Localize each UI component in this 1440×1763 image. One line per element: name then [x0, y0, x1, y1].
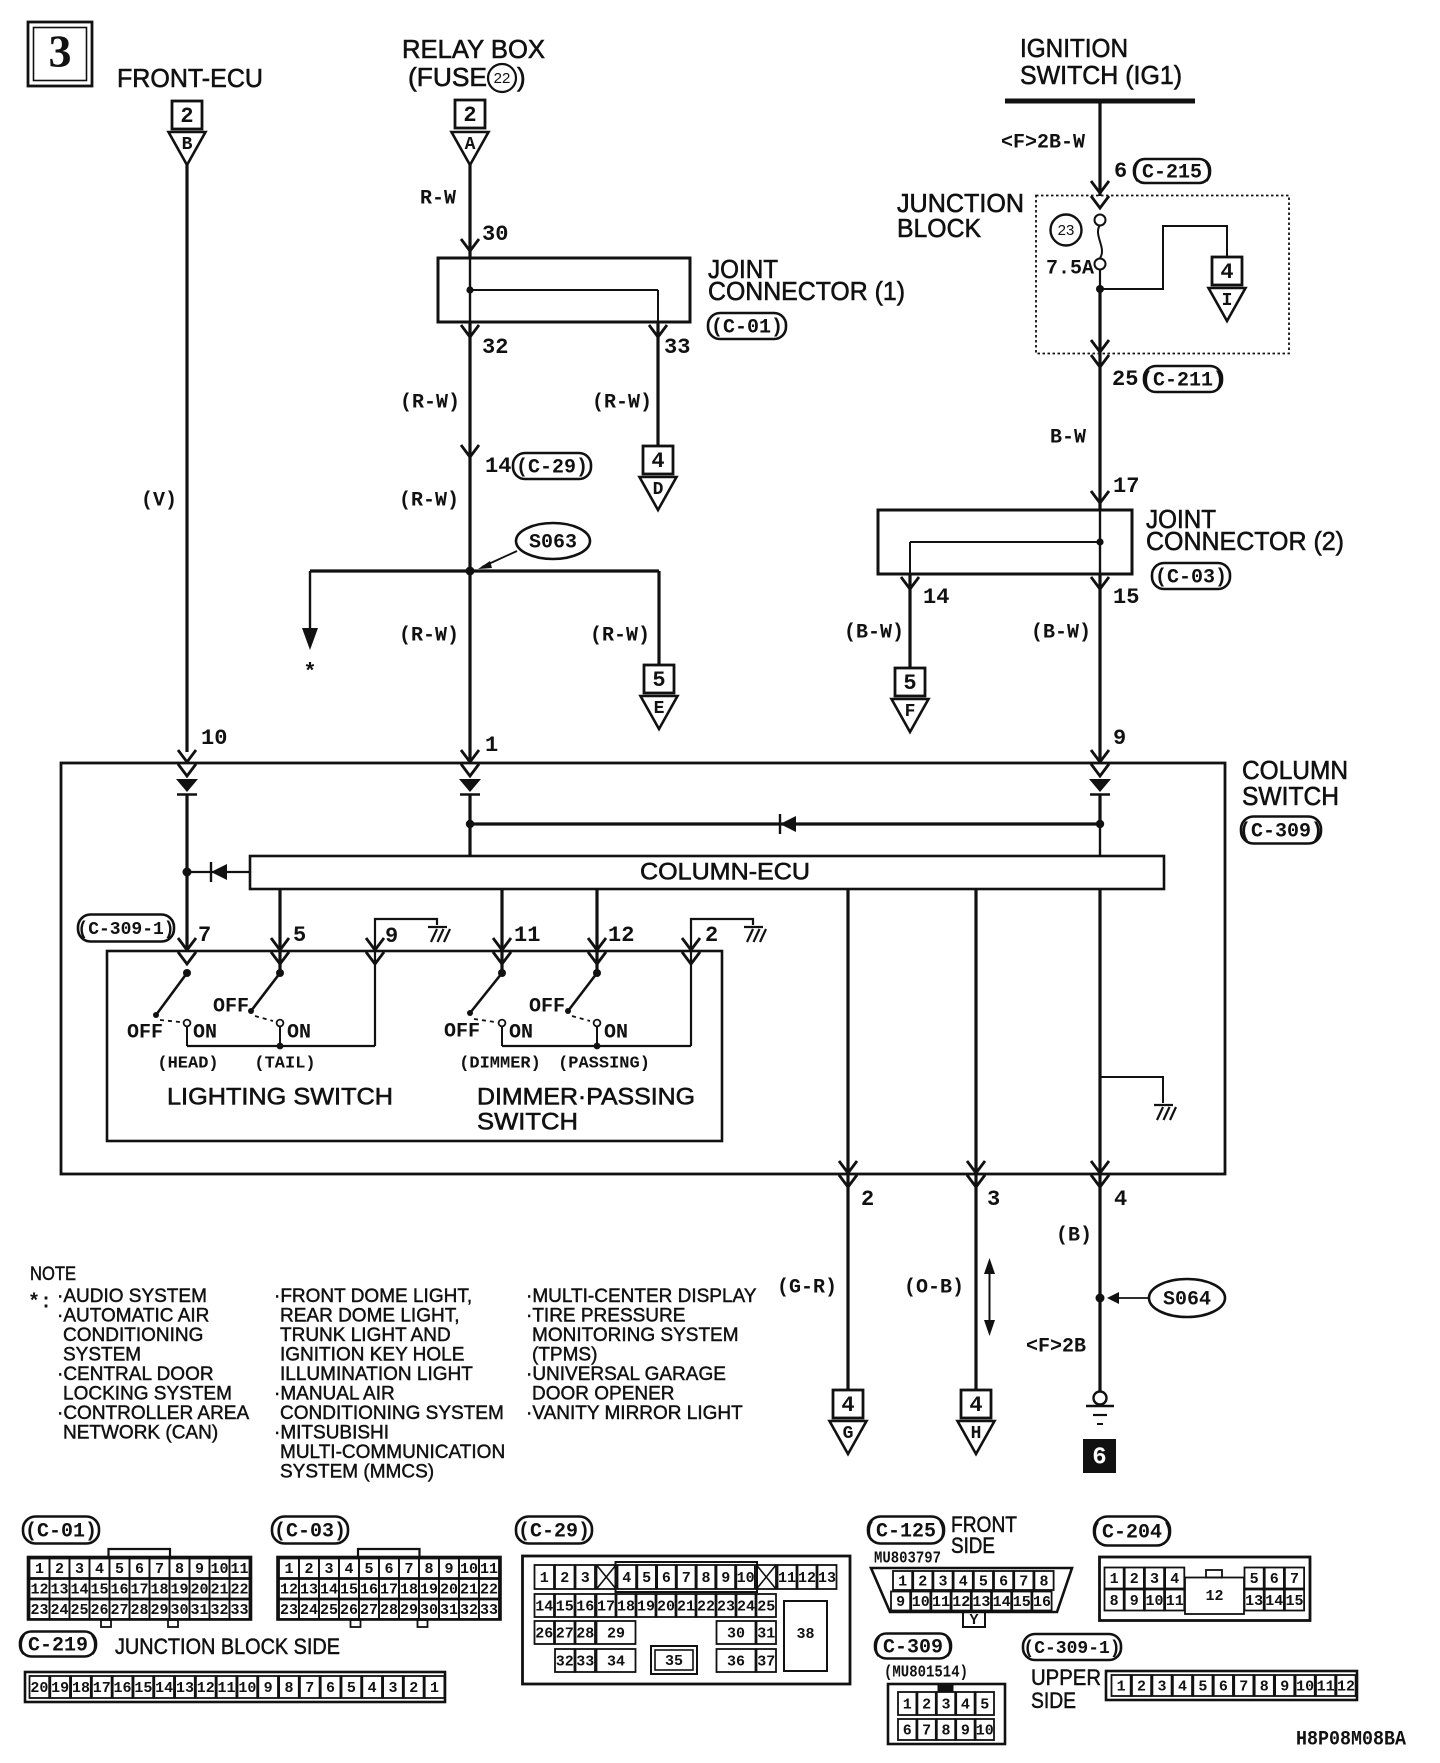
svg-text:2: 2: [1130, 1571, 1139, 1588]
ground symbol pin 2: [744, 927, 766, 942]
wire 2B-W from ignition switch: [1098, 101, 1101, 196]
note column 3: [526, 1286, 757, 1424]
wire label R-W: [420, 187, 456, 210]
svg-text:JUNCTION BLOCK SIDE: JUNCTION BLOCK SIDE: [115, 1634, 340, 1659]
svg-text:16: 16: [360, 1582, 378, 1599]
svg-text:I: I: [1222, 291, 1233, 311]
HEAD OFF label: [127, 1021, 163, 1044]
svg-text:SWITCH: SWITCH: [477, 1108, 578, 1135]
svg-text:6: 6: [1114, 159, 1127, 184]
bidirectional arrow: [984, 1258, 995, 1336]
svg-text:4: 4: [841, 1393, 854, 1418]
svg-text:31: 31: [190, 1602, 208, 1619]
connector label C-211: [1141, 366, 1225, 392]
svg-text:9: 9: [1280, 1678, 1289, 1695]
svg-text:15: 15: [134, 1680, 152, 1697]
svg-text:CONDITIONING SYSTEM: CONDITIONING SYSTEM: [280, 1403, 504, 1424]
svg-text:LIGHTING SWITCH: LIGHTING SWITCH: [167, 1083, 393, 1110]
svg-text:14: 14: [70, 1582, 88, 1599]
junction block box: [1036, 196, 1289, 354]
svg-text:17: 17: [130, 1582, 148, 1599]
svg-text:1: 1: [903, 1696, 912, 1713]
svg-text:4: 4: [95, 1561, 104, 1578]
pin 6 connector crossing: [1091, 181, 1109, 193]
svg-text:(C-309): (C-309): [871, 1636, 955, 1659]
svg-text:2: 2: [705, 923, 718, 948]
pin 2 ground bracket: [691, 919, 753, 951]
DIMMER PASSING SWITCH title: [477, 1083, 695, 1135]
pin 30 label: [482, 222, 508, 247]
svg-text:5: 5: [979, 1573, 988, 1590]
svg-text:2: 2: [180, 104, 193, 129]
wire label (R-W) below C-29: [399, 489, 459, 512]
svg-text:12: 12: [1337, 1678, 1355, 1695]
connector C-03 pin grid: [278, 1549, 501, 1627]
output pin 3 label: [987, 1187, 1000, 1212]
column switch outer box: [61, 763, 1225, 1174]
svg-text:·MITSUBISHI: ·MITSUBISHI: [274, 1423, 389, 1444]
svg-text:14: 14: [993, 1594, 1011, 1611]
svg-text:20: 20: [657, 1598, 675, 1615]
svg-text:2: 2: [922, 1696, 931, 1713]
connector label C-29: [513, 453, 591, 479]
pin 17 crossing: [1091, 491, 1109, 503]
svg-text:10: 10: [201, 726, 227, 751]
pin 15 label: [1113, 585, 1139, 610]
destination connector 5 box F: [895, 668, 925, 696]
pin 25 label: [1112, 367, 1138, 392]
svg-text:7: 7: [198, 923, 211, 948]
ignition switch supply bar: [1005, 99, 1195, 104]
svg-text:32: 32: [210, 1602, 228, 1619]
destination connector 4 box H: [961, 1390, 991, 1418]
wire node to column-ecu left: [187, 871, 250, 873]
wire label <F>2B: [1026, 1335, 1086, 1358]
svg-text:6: 6: [999, 1573, 1008, 1590]
svg-text:7: 7: [404, 1561, 413, 1578]
svg-text:25: 25: [70, 1602, 88, 1619]
svg-text:9: 9: [896, 1594, 905, 1611]
svg-text:6: 6: [384, 1561, 393, 1578]
output pin 2 label: [861, 1187, 874, 1212]
svg-text:COLUMN-ECU: COLUMN-ECU: [640, 858, 810, 885]
wire label (B-W) left: [844, 621, 904, 644]
svg-text:8: 8: [284, 1680, 293, 1697]
svg-text:19: 19: [420, 1582, 438, 1599]
svg-text:36: 36: [727, 1653, 745, 1670]
svg-text:11: 11: [480, 1561, 498, 1578]
output 4 exit crossing: [1091, 1161, 1109, 1187]
svg-text:25: 25: [1112, 367, 1138, 392]
svg-text:G: G: [843, 1424, 854, 1444]
JOINT CONNECTOR (2) title: [1146, 504, 1344, 556]
svg-text:Y: Y: [969, 1612, 978, 1629]
svg-text:22: 22: [230, 1582, 248, 1599]
JUNCTION BLOCK title: [897, 188, 1024, 243]
svg-text:22: 22: [494, 70, 511, 87]
HEAD ON label: [193, 1021, 217, 1044]
pin 9 label: [1113, 726, 1126, 751]
C-309 part number MU801514: [884, 1663, 968, 1682]
svg-text:19: 19: [170, 1582, 188, 1599]
wire ecu output 4: [1098, 889, 1101, 1174]
wire (R-W) pin 33 down: [656, 322, 659, 446]
ground reference box 6: [1083, 1439, 1116, 1473]
pin 9 entry crossing: [1091, 750, 1109, 776]
svg-text:2: 2: [463, 103, 476, 128]
svg-text:31: 31: [757, 1625, 775, 1642]
connector label C-01: [708, 313, 786, 339]
svg-text:23: 23: [30, 1602, 48, 1619]
pin 9 ground bracket: [375, 919, 437, 951]
svg-text:13: 13: [50, 1582, 68, 1599]
svg-text:30: 30: [727, 1625, 745, 1642]
DIMMER OFF label: [444, 1020, 480, 1043]
svg-text:MULTI-COMMUNICATION: MULTI-COMMUNICATION: [280, 1442, 505, 1463]
wire label (O-B): [904, 1276, 964, 1299]
svg-text:16: 16: [114, 1680, 132, 1697]
svg-text:F: F: [905, 702, 916, 722]
svg-text:37: 37: [757, 1653, 775, 1670]
svg-text:7.5A: 7.5A: [1046, 257, 1094, 280]
PASSING OFF label: [529, 995, 565, 1018]
svg-text:26: 26: [90, 1602, 108, 1619]
svg-text:REAR DOME LIGHT,: REAR DOME LIGHT,: [280, 1306, 459, 1327]
svg-text:MU803797: MU803797: [874, 1549, 941, 1568]
svg-text:10: 10: [210, 1561, 228, 1578]
wire label (G-R): [777, 1276, 837, 1299]
svg-text:12: 12: [280, 1582, 298, 1599]
svg-text:18: 18: [400, 1582, 418, 1599]
svg-text:*: *: [303, 660, 316, 685]
wire branch to audio systems with arrow: [302, 571, 318, 650]
svg-text:10: 10: [912, 1594, 930, 1611]
svg-text:(DIMMER): (DIMMER): [459, 1054, 541, 1073]
svg-text:24: 24: [50, 1602, 68, 1619]
svg-text:14: 14: [923, 585, 949, 610]
svg-text:·CENTRAL DOOR: ·CENTRAL DOOR: [57, 1364, 214, 1385]
svg-text:(C-211): (C-211): [1141, 369, 1225, 392]
svg-text:3: 3: [941, 1696, 950, 1713]
diagram code H8P08M08BA: [1296, 1728, 1406, 1751]
svg-text:SIDE: SIDE: [1031, 1688, 1076, 1713]
svg-text:·MULTI-CENTER DISPLAY: ·MULTI-CENTER DISPLAY: [526, 1286, 757, 1307]
asterisk key: [28, 1291, 52, 1314]
svg-text:(R-W): (R-W): [590, 624, 650, 647]
connector label C-309-1 pinout: [1023, 1634, 1121, 1660]
svg-text:22: 22: [480, 1582, 498, 1599]
switch box entry crossing pin 9: [366, 938, 384, 964]
svg-text:14: 14: [535, 1598, 553, 1615]
svg-text:10: 10: [1296, 1678, 1314, 1695]
JUNCTION BLOCK SIDE caption: [115, 1634, 340, 1659]
svg-text:5: 5: [347, 1680, 356, 1697]
svg-text:(MU801514): (MU801514): [884, 1663, 968, 1682]
svg-text:2: 2: [918, 1573, 927, 1590]
FRONT SIDE caption: [951, 1512, 1017, 1558]
svg-text:R-W: R-W: [420, 187, 456, 210]
lighting switch TAIL contact: [248, 969, 284, 1046]
wire (R-W) splice to triangle E: [657, 571, 660, 665]
svg-text:<F>2B-W: <F>2B-W: [1001, 131, 1085, 154]
svg-text:15: 15: [90, 1582, 108, 1599]
svg-text:28: 28: [576, 1625, 594, 1642]
svg-text:(C-01): (C-01): [711, 316, 783, 339]
connector C-204 pin grid: [1100, 1557, 1311, 1621]
pin 6 label: [1114, 159, 1127, 184]
wire label (R-W) left: [400, 391, 460, 414]
NOTE heading: [30, 1264, 76, 1285]
connector C-309-1 pin grid: [1106, 1671, 1357, 1700]
svg-text:SYSTEM: SYSTEM: [63, 1345, 141, 1366]
svg-text:5: 5: [364, 1561, 373, 1578]
destination triangle F: [892, 699, 929, 732]
svg-text:9: 9: [1130, 1593, 1139, 1610]
svg-text:10: 10: [976, 1722, 994, 1739]
svg-text:D: D: [653, 480, 664, 500]
svg-text:4: 4: [651, 449, 664, 474]
svg-text:9: 9: [444, 1561, 453, 1578]
IGNITION SWITCH title: [1020, 33, 1182, 90]
TAIL ON label: [287, 1021, 311, 1044]
svg-text:23: 23: [1058, 222, 1075, 239]
svg-text:3: 3: [1157, 1678, 1166, 1695]
wire junction block to pin 25: [1098, 289, 1101, 354]
svg-text:14: 14: [1265, 1593, 1283, 1610]
svg-text:13: 13: [176, 1680, 194, 1697]
svg-text:4: 4: [622, 1570, 631, 1587]
wire label (R-W) splice right: [590, 624, 650, 647]
svg-text:7: 7: [155, 1561, 164, 1578]
wire pin9 to bus: [1098, 795, 1101, 856]
branch wire to connector 4 I: [1100, 226, 1227, 289]
pin 9 label switch: [385, 924, 398, 949]
circled fuse number 23: [1051, 215, 1082, 246]
svg-text:IGNITION KEY HOLE: IGNITION KEY HOLE: [280, 1345, 464, 1366]
pin 15 crossing: [1091, 577, 1109, 589]
(TAIL) label: [254, 1054, 315, 1073]
svg-text:8: 8: [1260, 1678, 1269, 1695]
connector label C-204 pinout: [1090, 1517, 1174, 1546]
splice S064 node: [1096, 1294, 1105, 1303]
svg-text:(TPMS): (TPMS): [532, 1345, 597, 1366]
pin 1 entry arrow: [459, 779, 481, 795]
svg-text:(G-R): (G-R): [777, 1276, 837, 1299]
svg-text:33: 33: [480, 1602, 498, 1619]
svg-text:SWITCH (IG1): SWITCH (IG1): [1020, 60, 1182, 90]
pin 1 label: [485, 733, 498, 758]
wire label <F>2B-W: [1001, 131, 1085, 154]
svg-text:1: 1: [35, 1561, 44, 1578]
svg-text:6: 6: [1270, 1571, 1279, 1588]
svg-text:32: 32: [460, 1602, 478, 1619]
svg-text:5: 5: [1250, 1571, 1259, 1588]
COLUMN-ECU box: [250, 856, 1164, 889]
svg-text:·MANUAL AIR: ·MANUAL AIR: [274, 1384, 395, 1405]
svg-text:(TAIL): (TAIL): [254, 1054, 315, 1073]
svg-text:<F>2B: <F>2B: [1026, 1335, 1086, 1358]
output 2 exit crossing: [839, 1161, 857, 1187]
svg-text:(C-29): (C-29): [518, 1520, 590, 1543]
svg-text:·VANITY MIRROR LIGHT: ·VANITY MIRROR LIGHT: [526, 1403, 743, 1424]
svg-text:12: 12: [1205, 1588, 1223, 1605]
svg-text:1: 1: [430, 1680, 439, 1697]
ground symbol column switch: [1154, 1105, 1176, 1120]
svg-text:(B): (B): [1056, 1224, 1092, 1247]
connector label C-03 pinout: [272, 1517, 348, 1544]
svg-text:13: 13: [818, 1570, 836, 1587]
svg-text:BLOCK: BLOCK: [897, 213, 982, 243]
connector label C-03: [1152, 563, 1230, 589]
pin 11 label: [514, 923, 540, 948]
connector C-01 pin grid: [28, 1549, 251, 1627]
svg-text:23: 23: [280, 1602, 298, 1619]
svg-text:DIMMER·PASSING: DIMMER·PASSING: [477, 1083, 695, 1110]
svg-text:11: 11: [1166, 1593, 1184, 1610]
svg-text:33: 33: [230, 1602, 248, 1619]
svg-text:11: 11: [230, 1561, 248, 1578]
wire pin1 to column-ecu: [468, 795, 471, 856]
svg-text:7: 7: [305, 1680, 314, 1697]
svg-text:(C-309-1): (C-309-1): [77, 920, 174, 940]
svg-text:7: 7: [682, 1570, 691, 1587]
svg-text:9: 9: [961, 1722, 970, 1739]
svg-text:2: 2: [304, 1561, 313, 1578]
svg-text:20: 20: [30, 1680, 48, 1697]
LIGHTING SWITCH title: [167, 1083, 393, 1110]
joint connector 2 box: [878, 510, 1132, 574]
pin 1 entry crossing: [461, 750, 479, 776]
wire B-W down to joint connector 2: [1098, 354, 1101, 511]
connector label C-215: [1130, 159, 1214, 184]
svg-text:SWITCH: SWITCH: [1242, 781, 1339, 811]
svg-text:8: 8: [701, 1570, 710, 1587]
wire ecu pin 11: [500, 889, 503, 973]
svg-text:12: 12: [30, 1582, 48, 1599]
destination triangle E: [641, 696, 678, 729]
svg-text:4: 4: [1114, 1187, 1127, 1212]
svg-text:5: 5: [980, 1696, 989, 1713]
svg-text:10: 10: [1145, 1593, 1163, 1610]
pin 14 label jc2: [923, 585, 949, 610]
svg-text:5: 5: [903, 671, 916, 696]
pin 33 label: [664, 335, 690, 360]
svg-text:10: 10: [737, 1570, 755, 1587]
pin 9 entry arrow: [1089, 779, 1111, 795]
svg-text:19: 19: [637, 1598, 655, 1615]
COLUMN SWITCH title: [1242, 755, 1348, 811]
svg-text:29: 29: [150, 1602, 168, 1619]
connector C-125 pin grid: [871, 1568, 1072, 1629]
svg-text:MONITORING SYSTEM: MONITORING SYSTEM: [532, 1325, 739, 1346]
svg-text:29: 29: [607, 1625, 625, 1642]
svg-text:17: 17: [1113, 474, 1139, 499]
svg-text:12: 12: [608, 923, 634, 948]
svg-text:9: 9: [264, 1680, 273, 1697]
svg-text:H8P08M08BA: H8P08M08BA: [1296, 1728, 1406, 1751]
pin 32 label: [482, 335, 508, 360]
svg-text:9: 9: [195, 1561, 204, 1578]
svg-text:5: 5: [115, 1561, 124, 1578]
svg-text:3: 3: [987, 1187, 1000, 1212]
dimmer switch DIMMER contact: [467, 969, 506, 1046]
svg-text:21: 21: [677, 1598, 695, 1615]
svg-text:15: 15: [1113, 585, 1139, 610]
svg-text:·AUDIO SYSTEM: ·AUDIO SYSTEM: [57, 1286, 207, 1307]
(PASSING) label: [558, 1054, 650, 1073]
wire (B) down: [1098, 1174, 1101, 1392]
pin 14 crossing jc2: [901, 577, 919, 589]
DIMMER ON label: [509, 1021, 533, 1044]
svg-text:A: A: [465, 135, 476, 155]
svg-text:3: 3: [324, 1561, 333, 1578]
svg-text:16: 16: [110, 1582, 128, 1599]
svg-text:16: 16: [576, 1598, 594, 1615]
svg-text:1: 1: [898, 1573, 907, 1590]
svg-text:11: 11: [778, 1570, 796, 1587]
svg-text:30: 30: [482, 222, 508, 247]
TAIL OFF label: [213, 995, 249, 1018]
svg-text:(O-B): (O-B): [904, 1276, 964, 1299]
svg-text:13: 13: [300, 1582, 318, 1599]
svg-text:6: 6: [1219, 1678, 1228, 1695]
svg-text:8: 8: [1110, 1593, 1119, 1610]
svg-text:21: 21: [460, 1582, 478, 1599]
svg-text:14: 14: [155, 1680, 173, 1697]
splice S063 node: [466, 567, 475, 576]
svg-text:·UNIVERSAL GARAGE: ·UNIVERSAL GARAGE: [526, 1364, 726, 1385]
svg-text:14: 14: [485, 454, 511, 479]
svg-text:18: 18: [72, 1680, 90, 1697]
svg-text:4: 4: [368, 1680, 377, 1697]
svg-text:B: B: [182, 135, 193, 155]
svg-text:26: 26: [340, 1602, 358, 1619]
svg-text:3: 3: [388, 1680, 397, 1697]
svg-text:1: 1: [284, 1561, 293, 1578]
node pin10 to ecu: [183, 868, 192, 877]
svg-text:(C-03): (C-03): [1155, 566, 1227, 589]
destination connector 5 box: [644, 665, 674, 693]
svg-text:8: 8: [1039, 1573, 1048, 1590]
asterisk note marker: [303, 660, 316, 685]
svg-text:28: 28: [380, 1602, 398, 1619]
svg-text:2: 2: [1137, 1678, 1146, 1695]
svg-text:7: 7: [1019, 1573, 1028, 1590]
output 3 exit crossing: [967, 1161, 985, 1187]
PASSING ON label: [604, 1021, 628, 1044]
pin 10 entry crossing: [178, 750, 196, 776]
svg-text:12: 12: [952, 1594, 970, 1611]
svg-text:11: 11: [218, 1680, 236, 1697]
pin 30 connector crossing: [461, 239, 479, 251]
connector label C-125 pinout: [864, 1517, 948, 1544]
note column 2: [274, 1286, 505, 1483]
JOINT CONNECTOR (1) title: [708, 254, 905, 306]
lighting switch HEAD contact: [153, 969, 191, 1046]
svg-text:11: 11: [1317, 1678, 1335, 1695]
svg-text:25: 25: [320, 1602, 338, 1619]
chassis ground symbol: [1086, 1392, 1114, 1425]
svg-text:ILLUMINATION LIGHT: ILLUMINATION LIGHT: [280, 1364, 473, 1385]
connector label C-309-1 inline: [77, 915, 174, 942]
svg-text:2: 2: [861, 1187, 874, 1212]
svg-text:5: 5: [293, 923, 306, 948]
wire label (V): [141, 489, 177, 512]
connector C-309 pin grid: [888, 1684, 1005, 1744]
svg-text:15: 15: [1013, 1594, 1031, 1611]
svg-text:4: 4: [1170, 1571, 1179, 1588]
svg-text:35: 35: [665, 1653, 683, 1670]
